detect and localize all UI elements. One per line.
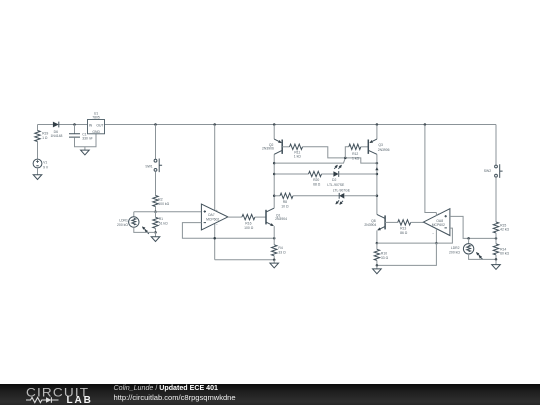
wire rail D6 to U1 <box>59 124 88 126</box>
transistor Q3 <box>368 139 389 154</box>
svg-text:SW2: SW2 <box>484 169 491 173</box>
svg-text:9 V: 9 V <box>43 165 49 169</box>
svg-text:200 kΩ: 200 kΩ <box>449 251 460 255</box>
svg-text:R4: R4 <box>278 246 282 250</box>
svg-text:2N3906: 2N3906 <box>378 148 390 152</box>
resistor R16 <box>242 214 255 230</box>
resistor R1 <box>153 217 168 228</box>
svg-text:IN: IN <box>89 124 93 128</box>
wire R12 to Q3 base <box>361 146 369 148</box>
resistor R8 <box>280 193 293 208</box>
resistor R12 <box>349 144 361 160</box>
wire Q2 column from rail <box>273 125 275 140</box>
wire R13 to OA8 output <box>411 221 424 223</box>
wire row162 to center node <box>274 158 345 163</box>
wire R1 bottom lead <box>155 228 157 232</box>
wire R15 bottom lead <box>495 233 497 238</box>
wire OA8 ground loop <box>377 243 437 265</box>
node R10 ground junction <box>376 264 379 267</box>
svg-text:GND: GND <box>92 130 100 134</box>
wire Q1 emitter node to R4 <box>273 238 275 245</box>
wire OA8 -input loop <box>377 228 453 243</box>
wire R10 top lead <box>376 243 378 249</box>
wire SW1 column from rail <box>155 125 157 160</box>
LED D5 LTL-907GE <box>333 189 351 205</box>
svg-text:1 kΩ: 1 kΩ <box>294 155 302 159</box>
resistor R15 <box>493 222 509 233</box>
footer bar <box>0 384 540 405</box>
svg-text:33 Ω: 33 Ω <box>278 250 286 254</box>
resistor R2 <box>153 196 170 207</box>
wire C1 bottom to U1 GND <box>75 134 97 147</box>
ground below V1 <box>33 175 42 180</box>
svg-text:7805: 7805 <box>92 116 100 120</box>
svg-text:+: + <box>216 209 218 213</box>
wire Q3 column from rail <box>376 125 378 140</box>
wire OA7 -input feedback loop <box>182 223 274 239</box>
wire R1 top lead <box>155 212 157 218</box>
node Q3 collector jog junction <box>376 162 379 165</box>
resistor R19 <box>35 131 49 142</box>
svg-text:OUT: OUT <box>96 124 103 128</box>
node rail-Q3 junction <box>376 123 379 126</box>
ground below R4 <box>273 260 275 263</box>
regulator U1 7805 <box>88 112 105 134</box>
wire R20 to D2 <box>322 173 334 175</box>
transistor Q2 <box>262 139 282 154</box>
ground below R14 <box>495 259 497 264</box>
svg-text:Q8: Q8 <box>371 219 376 223</box>
node rail-SW1 junction <box>154 123 157 126</box>
footer title text <box>114 384 219 392</box>
wire SW2 to R15 <box>495 177 497 222</box>
svg-text:R1: R1 <box>159 217 163 221</box>
wire Q2 base to R11 <box>282 146 289 148</box>
wire R10 bottom lead <box>376 260 378 265</box>
CircuitLab logo squiggle <box>26 396 62 404</box>
switch SW1 <box>145 159 162 173</box>
wire R14 top lead <box>495 238 497 244</box>
svg-text:60 kΩ: 60 kΩ <box>500 252 509 256</box>
wire top rail left segment <box>38 124 53 126</box>
svg-text:86 Ω: 86 Ω <box>400 231 408 235</box>
wire rail U1 OUT to right end <box>105 124 497 126</box>
wire C1 top lead <box>74 125 76 134</box>
wire OA8 Vplus stub <box>435 213 437 216</box>
node OA8 Vminus junction <box>435 242 438 245</box>
svg-text:330 nF: 330 nF <box>82 137 93 141</box>
LED D2 <box>327 165 345 187</box>
svg-text:2N3906: 2N3906 <box>262 147 274 151</box>
svg-text:R13: R13 <box>400 226 406 230</box>
wire LDR1 top corner <box>133 212 135 217</box>
svg-text:100 Ω: 100 Ω <box>244 226 254 230</box>
op-amp OA7 <box>201 204 228 230</box>
svg-text:MCP602: MCP602 <box>432 223 445 227</box>
svg-text:200 kΩ: 200 kΩ <box>117 223 128 227</box>
resistor R11 <box>290 144 303 159</box>
svg-text:LDR1: LDR1 <box>119 219 128 223</box>
transistor Q1 <box>266 208 287 226</box>
photoresistor LDR1 <box>117 217 149 234</box>
svg-text:33 Ω: 33 Ω <box>381 256 389 260</box>
svg-text:1 kΩ: 1 kΩ <box>352 156 360 160</box>
node rowB right junction <box>376 195 379 198</box>
svg-text:68 Ω: 68 Ω <box>313 182 321 186</box>
wire R11 jog to center node <box>303 147 377 163</box>
wire V1 to ground <box>37 168 39 175</box>
svg-text:MCP602: MCP602 <box>206 218 219 222</box>
node rowA right junction <box>376 173 379 176</box>
svg-text:D2: D2 <box>332 178 336 182</box>
ground below R10 <box>376 265 378 269</box>
capacitor C1 <box>69 133 93 141</box>
resistor R14 <box>493 244 509 256</box>
wire R16 to Q1 base <box>255 216 266 218</box>
svg-text:2N3904: 2N3904 <box>364 223 376 227</box>
node R2/R1 junction <box>154 211 157 214</box>
node R14 ground junction <box>495 258 498 261</box>
resistor R4 <box>272 245 287 256</box>
node center R11/R12 <box>344 157 347 160</box>
wire V1 column top <box>37 125 39 131</box>
wire OA7 output <box>228 216 242 218</box>
node R1/LDR1 ground junction <box>154 231 157 234</box>
node R4 ground junction <box>273 258 276 261</box>
svg-text:LDR2: LDR2 <box>451 246 460 250</box>
resistor R20 <box>309 171 322 186</box>
svg-text:LTL-907SE: LTL-907SE <box>327 183 345 187</box>
svg-text:−: − <box>216 223 218 227</box>
CircuitLab logo LAB <box>67 395 93 405</box>
wire Q3 collector column <box>376 154 378 214</box>
wire OA8 Vminus stub <box>435 229 437 243</box>
wire D2 to Q3 column <box>339 173 377 175</box>
voltage source V1 <box>33 159 49 169</box>
wire Q2 collector column <box>273 154 275 208</box>
svg-text:Q3: Q3 <box>378 143 383 147</box>
wire LDR1 bottom <box>134 227 156 232</box>
svg-text:51 kΩ: 51 kΩ <box>159 222 168 226</box>
wire LDR2 bottom <box>469 254 496 259</box>
svg-text:42 kΩ: 42 kΩ <box>500 228 509 232</box>
CircuitLab logo CIRCUIT <box>26 385 89 399</box>
wire R19 to V1 <box>37 142 39 159</box>
switch SW2 <box>484 164 503 178</box>
svg-text:OA7: OA7 <box>208 213 215 217</box>
arrow marker on Q3 column <box>375 167 378 170</box>
wire R12 left lead <box>345 147 349 158</box>
node rail-C1 junction <box>73 123 76 126</box>
wire OA8 Vplus from rail <box>425 125 437 213</box>
wire OA7 Vminus to ground row <box>215 259 275 261</box>
wire rowB left <box>274 195 280 197</box>
svg-text:R2: R2 <box>158 197 162 201</box>
wire SW1 to R2 <box>155 171 157 195</box>
node rail-Q2 junction <box>273 123 276 126</box>
wire rowA left <box>274 173 308 175</box>
node Q1 emitter junction <box>273 237 276 240</box>
wire LDR2 top lead <box>468 238 470 243</box>
node rail-OA7 power junction <box>213 123 216 126</box>
ground below C1 <box>84 147 86 150</box>
svg-text:V1: V1 <box>43 161 47 165</box>
wire Q8 base row <box>385 221 398 223</box>
wire R8 to LED D5 <box>293 195 339 197</box>
transistor Q8 <box>364 214 385 230</box>
diode D6 <box>51 122 63 138</box>
svg-text:+: + <box>438 213 440 217</box>
node LDR2 top junction <box>467 237 470 240</box>
node Q8 emitter junction <box>376 242 379 245</box>
wire Q1 emitter down <box>273 226 275 238</box>
wire Q8 emitter down <box>376 230 378 243</box>
node rail-OA8 power junction <box>424 123 427 126</box>
svg-text:1N4148: 1N4148 <box>51 134 63 138</box>
wire +input row to OA7 <box>134 211 202 213</box>
node row162 left junction <box>273 162 276 165</box>
wire SW2 column from rail <box>495 125 497 165</box>
wire R4 bottom <box>273 256 275 260</box>
svg-text:1 Ω: 1 Ω <box>42 136 48 140</box>
svg-text:−: − <box>432 231 434 235</box>
node rowA left junction <box>273 173 276 176</box>
resistor R10 <box>374 249 388 260</box>
svg-text:100 kΩ: 100 kΩ <box>158 202 169 206</box>
footer url text <box>114 393 236 402</box>
svg-text:2N3904: 2N3904 <box>275 217 287 221</box>
op-amp OA8 <box>423 209 450 236</box>
svg-text:SW1: SW1 <box>145 164 152 168</box>
node R15/R14 junction <box>495 237 498 240</box>
node rowB left junction <box>273 195 276 198</box>
svg-text:R19: R19 <box>42 132 48 136</box>
wire R14 bottom lead <box>495 255 497 260</box>
wire LED D5 to Q3 column <box>344 195 377 197</box>
wire OA7 power column <box>214 125 216 260</box>
resistor R13 <box>398 220 411 235</box>
photoresistor LDR2 <box>449 244 483 260</box>
svg-text:R16: R16 <box>245 222 251 226</box>
svg-text:LTL-907GE: LTL-907GE <box>333 189 351 193</box>
node feedback/Vminus cross <box>213 237 216 240</box>
svg-text:10 Ω: 10 Ω <box>281 204 289 208</box>
wire OA8 +input <box>450 216 496 238</box>
ground below R1 <box>155 232 157 236</box>
wire R2 to +input row <box>155 207 157 212</box>
